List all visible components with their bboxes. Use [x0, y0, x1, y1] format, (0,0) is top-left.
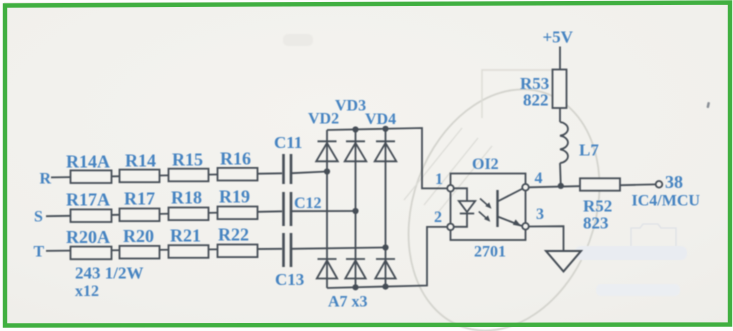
svg-text:R21: R21: [170, 225, 201, 245]
svg-text:R19: R19: [219, 187, 250, 207]
faint scan bleed: top centre smudge: [283, 34, 313, 46]
pin 4 circle: [522, 184, 529, 191]
wire bridge column 2: [355, 129, 357, 288]
op-amp: optocoupler OI2 body: [451, 174, 526, 241]
diode A7 b: [345, 259, 365, 279]
diode VD2: [316, 141, 338, 161]
svg-text:OI2: OI2: [472, 156, 499, 173]
diode A7 c: [375, 259, 395, 279]
wire top rail: [327, 128, 447, 188]
wire row2 caps to bridge: [292, 210, 356, 212]
svg-text:R: R: [40, 171, 52, 188]
svg-text:R17A: R17A: [66, 190, 110, 210]
junction node top rail VD4: [382, 126, 388, 132]
svg-text:3: 3: [536, 206, 544, 223]
wire bridge column 3: [385, 129, 387, 288]
diode VD4: [375, 141, 397, 161]
wire bottom rail: [327, 227, 447, 288]
svg-text:C11: C11: [274, 133, 302, 152]
svg-text:R16: R16: [220, 149, 251, 169]
light arrows inside OI2: [479, 199, 492, 222]
resistor R21: [169, 245, 209, 258]
diode VD3: [345, 141, 367, 161]
junction node row2-VD3: [352, 208, 358, 214]
svg-text:VD2: VD2: [308, 111, 339, 128]
svg-text:R14: R14: [125, 151, 156, 171]
LED inside OI2: [454, 188, 476, 227]
svg-text:C13: C13: [275, 270, 304, 289]
wire +5V to R53: [559, 47, 561, 70]
terminal 38 circle: [656, 181, 663, 188]
svg-text:2701: 2701: [474, 244, 506, 261]
pin 3 circle: [522, 223, 529, 230]
svg-text:VD4: VD4: [365, 111, 396, 128]
transistor inside OI2: [498, 189, 523, 228]
junction node row1-VD2: [324, 168, 330, 174]
svg-text:R15: R15: [172, 150, 203, 170]
svg-text:VD3: VD3: [335, 98, 366, 115]
wire R53 to L7: [559, 108, 561, 122]
resistor R53: [553, 70, 567, 109]
wire pin4 to R52 to terminal: [529, 184, 656, 187]
capacitor C13: [284, 233, 292, 267]
diode A7 a: [317, 259, 337, 279]
svg-text:L7: L7: [579, 141, 599, 160]
junction node top rail VD3: [352, 126, 358, 132]
resistor R19: [218, 207, 258, 220]
svg-text:1: 1: [435, 171, 443, 188]
ground: [546, 251, 581, 272]
svg-text:243 1/2W: 243 1/2W: [75, 264, 143, 283]
pin 2 circle: [447, 224, 454, 231]
faint scan bleed: big ellipse: [376, 62, 632, 331]
resistor R15: [169, 169, 209, 182]
svg-text:2: 2: [434, 209, 442, 226]
resistor R14: [120, 170, 160, 183]
wire row2 between resistors: [71, 211, 283, 216]
resistor R20A: [71, 247, 112, 260]
resistor R17A: [71, 209, 112, 222]
junction node row3-VD4: [382, 244, 388, 250]
svg-text:S: S: [34, 209, 43, 226]
node R lead wire: [51, 176, 71, 178]
resistor R14A: [71, 170, 112, 183]
wire bridge column 1: [326, 130, 328, 288]
pin 1 circle: [447, 185, 454, 192]
svg-text:C12: C12: [294, 195, 322, 212]
svg-text:R22: R22: [218, 225, 249, 245]
svg-text:R20: R20: [123, 226, 154, 246]
junction node bottom rail A7b: [352, 284, 358, 290]
resistor R18: [169, 208, 209, 221]
svg-text:IC4/MCU: IC4/MCU: [632, 193, 701, 210]
resistor R52: [580, 178, 620, 190]
wire row1 caps to bridge: [292, 172, 327, 174]
capacitor C12: [284, 192, 292, 226]
svg-text:822: 822: [523, 91, 549, 110]
junction node bottom rail A7c: [382, 284, 388, 290]
svg-text:x12: x12: [75, 283, 99, 300]
wire row3 between resistors: [71, 249, 283, 251]
wire row1 between resistors: [71, 173, 283, 177]
inductor L7: [560, 122, 568, 163]
svg-text:4: 4: [535, 170, 543, 187]
faint scan bleed: blue blob right-bottom: [631, 224, 676, 257]
svg-text:R17: R17: [124, 189, 155, 209]
resistor R20: [120, 246, 160, 259]
resistor R16: [218, 168, 258, 181]
svg-text:A7 x3: A7 x3: [328, 294, 368, 311]
resistor R22: [218, 245, 258, 258]
svg-text:R18: R18: [171, 188, 202, 208]
svg-text:+5V: +5V: [543, 28, 574, 47]
faint diagonal streaks: [404, 128, 492, 215]
svg-text:R14A: R14A: [66, 152, 110, 172]
node T lead wire: [46, 250, 71, 252]
capacitor C11: [284, 154, 292, 184]
resistor R17: [120, 209, 160, 222]
node S lead wire: [46, 215, 71, 217]
svg-text:T: T: [34, 244, 45, 261]
speck right edge: [706, 102, 710, 108]
wire row3 caps to bridge: [292, 248, 386, 249]
svg-text:R20A: R20A: [66, 227, 110, 247]
wire pin3 to ground: [529, 226, 564, 251]
wire L7 to junction: [559, 163, 562, 186]
svg-text:38: 38: [665, 172, 683, 192]
svg-text:823: 823: [583, 214, 609, 233]
junction node L7-R52: [558, 183, 564, 189]
faint scan bleed: gray box lines: [482, 70, 553, 118]
